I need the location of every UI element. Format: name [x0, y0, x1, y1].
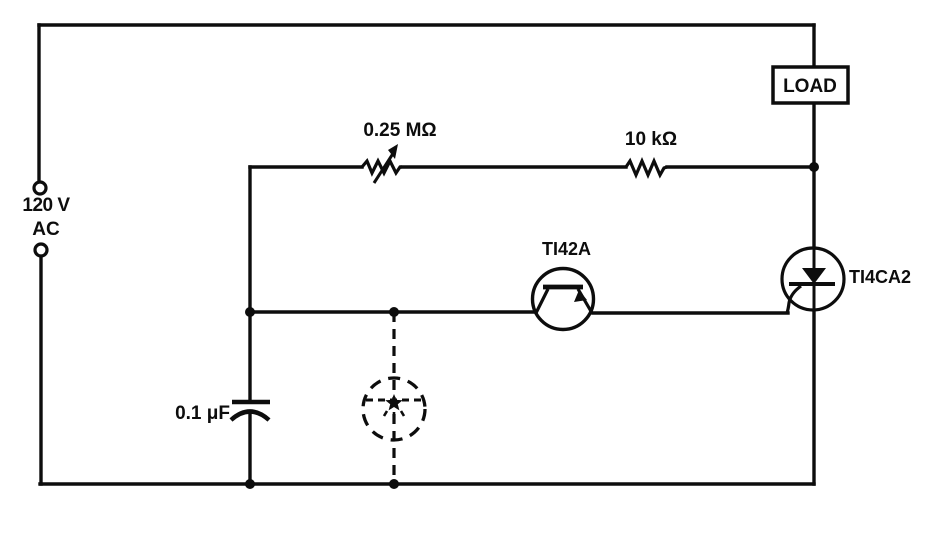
wire left branch vertical upper	[248, 167, 251, 400]
terminal lower 120V	[35, 244, 47, 256]
svg-text:TI42A: TI42A	[542, 239, 591, 259]
wire right vertical above LOAD	[812, 25, 815, 67]
TI42A top bar	[543, 285, 583, 290]
junction dot left branch / gate row	[245, 307, 255, 317]
TI42A left diagonal	[536, 289, 548, 313]
svg-text:AC: AC	[32, 219, 60, 240]
wire top horizontal	[39, 23, 814, 26]
wire left vertical upper	[37, 25, 40, 181]
potentiometer R1 0.25 Mohm zigzag	[362, 161, 402, 173]
triac triangle	[802, 268, 826, 284]
lamp dashed horizontal	[366, 399, 424, 402]
wire gate row right of diac	[593, 311, 788, 314]
junction dot left branch / bottom wire	[245, 479, 255, 489]
wire resistor row middle segment	[402, 165, 626, 168]
wire bottom horizontal	[40, 482, 814, 485]
TI42A right diagonal	[578, 289, 592, 313]
wire right vertical LOAD to triac	[812, 103, 815, 249]
wire left vertical lower	[39, 256, 42, 484]
svg-text:0.1 μF: 0.1 μF	[175, 403, 230, 424]
wire resistor row right segment	[667, 165, 814, 168]
triac cathode bar	[789, 282, 835, 286]
capacitor C1 0.1 uF top plate	[232, 400, 270, 405]
junction dot dashed branch / gate row	[389, 307, 399, 317]
svg-text:TI4CA2: TI4CA2	[849, 267, 911, 287]
junction dot at resistor row / right vertical	[809, 162, 819, 172]
triac vertical lead through circle	[813, 249, 816, 310]
svg-text:120 V: 120 V	[22, 195, 70, 216]
wire resistor row left segment	[250, 165, 362, 168]
terminal upper 120V	[34, 182, 46, 194]
svg-text:0.25 MΩ: 0.25 MΩ	[363, 120, 436, 141]
wire right vertical triac to bottom	[812, 310, 815, 484]
svg-text:10 kΩ: 10 kΩ	[625, 129, 677, 150]
triac gate curve	[787, 286, 801, 313]
resistor 10 kohm zigzag	[626, 161, 667, 175]
wire gate row left of diac	[250, 310, 534, 313]
triac Q1 TI4CA2 circle	[782, 248, 844, 310]
trigger diode U1 TI42A circle	[533, 269, 594, 330]
svg-text:LOAD: LOAD	[783, 76, 837, 97]
capacitor C1 curved plate	[231, 412, 269, 421]
lamp star	[385, 394, 402, 410]
LOAD box	[773, 67, 848, 103]
wire left branch vertical lower	[248, 413, 251, 484]
dashed branch vertical wire	[392, 312, 395, 484]
lamp lower marks	[384, 411, 404, 418]
optional lamp dashed circle	[363, 378, 425, 440]
TI42A arrowhead	[574, 290, 587, 302]
junction dot dashed branch / bottom wire	[389, 479, 399, 489]
potentiometer arrow	[374, 152, 394, 183]
